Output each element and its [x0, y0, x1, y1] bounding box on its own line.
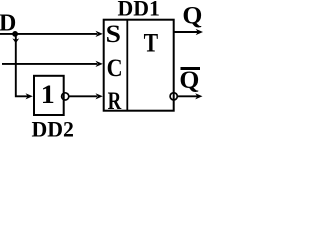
svg-text:DD2: DD2 — [32, 116, 74, 137]
svg-text:Q: Q — [179, 67, 199, 94]
svg-text:R: R — [108, 88, 122, 115]
svg-text:1: 1 — [41, 80, 55, 109]
svg-text:DD1: DD1 — [118, 0, 160, 21]
svg-text:D: D — [0, 10, 16, 36]
svg-text:C: C — [107, 55, 123, 82]
svg-text:Q: Q — [182, 3, 202, 30]
svg-text:T: T — [144, 29, 159, 58]
svg-text:S: S — [106, 21, 121, 48]
